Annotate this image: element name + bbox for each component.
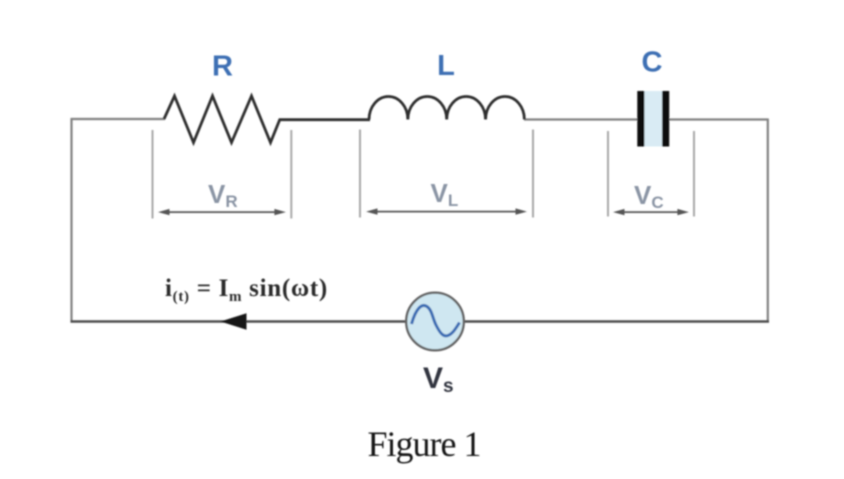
svg-text:VR: VR — [208, 179, 238, 211]
source VS sine wave — [412, 305, 460, 335]
VC measurement arrow — [613, 209, 689, 215]
VL measurement left tick — [359, 130, 361, 218]
VL measurement right tick — [532, 130, 534, 218]
capacitor C left plate — [637, 91, 644, 147]
inductor L — [369, 96, 524, 119]
svg-text:VL: VL — [431, 178, 459, 210]
VR measurement right tick — [290, 130, 292, 219]
current direction arrow — [221, 313, 247, 329]
VC measurement right tick — [693, 131, 695, 217]
VL measurement arrow — [366, 208, 527, 214]
svg-text:Vs: Vs — [423, 362, 454, 397]
VC measurement left tick — [607, 131, 609, 217]
wire left vertical — [70, 118, 72, 323]
wire bottom horizontal — [71, 320, 770, 322]
wire right vertical — [767, 119, 769, 323]
svg-text:C: C — [642, 47, 663, 79]
svg-text:i(t) = Im sin(ωt): i(t) = Im sin(ωt) — [165, 275, 328, 305]
svg-text:VC: VC — [634, 180, 664, 212]
VR measurement left tick — [152, 130, 154, 219]
VR measurement arrow — [158, 209, 286, 215]
resistor R — [164, 96, 280, 143]
svg-text:Figure 1: Figure 1 — [368, 424, 481, 464]
wire resistor-to-inductor (dark lead) — [279, 118, 370, 121]
svg-text:L: L — [437, 50, 455, 82]
wire inductor-to-capacitor — [524, 118, 768, 120]
capacitor C dielectric fill — [641, 91, 666, 147]
source VS circle — [406, 293, 464, 351]
capacitor C right plate — [662, 91, 669, 147]
svg-text:R: R — [212, 51, 233, 83]
wire top-left horizontal — [71, 118, 166, 120]
